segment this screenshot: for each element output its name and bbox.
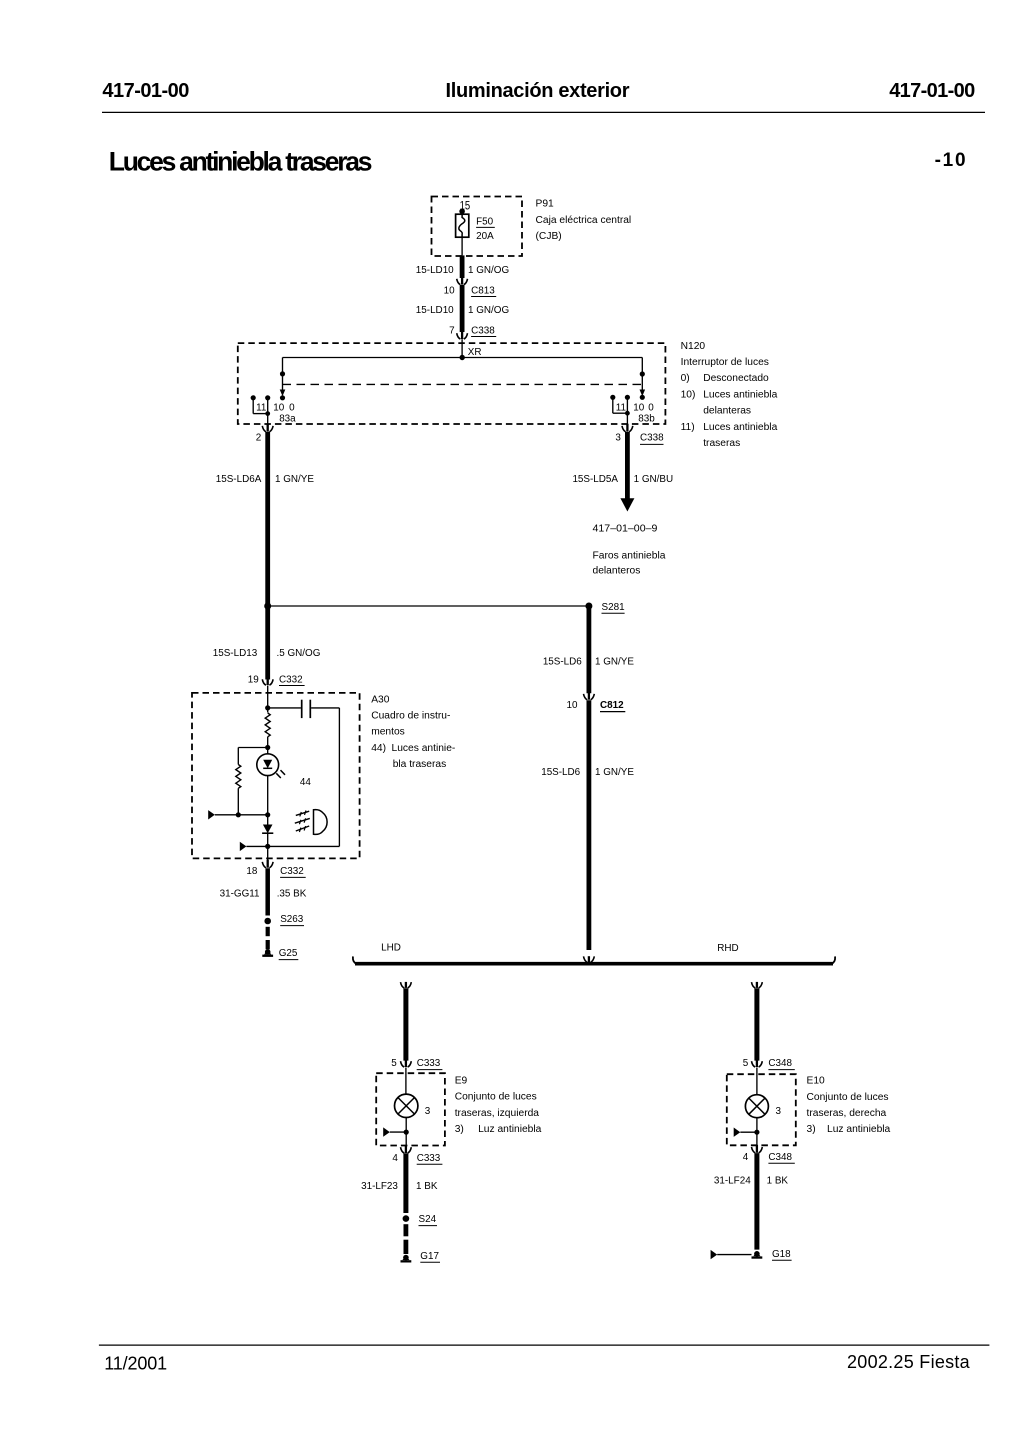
svg-text:1 GN/BU: 1 GN/BU: [634, 474, 674, 485]
svg-text:5: 5: [743, 1058, 749, 1069]
svg-text:delanteros: delanteros: [593, 565, 641, 576]
svg-text:Luces antiniebla traseras: Luces antiniebla traseras: [109, 147, 373, 177]
svg-text:0): 0): [681, 373, 690, 384]
svg-text:traseras: traseras: [703, 438, 740, 449]
svg-text:44: 44: [300, 777, 311, 788]
svg-text:C338: C338: [640, 433, 664, 444]
svg-text:10: 10: [273, 402, 284, 413]
svg-text:XR: XR: [468, 347, 482, 358]
svg-text:E9: E9: [455, 1076, 468, 1087]
svg-text:Interruptor de luces: Interruptor de luces: [681, 357, 769, 368]
svg-text:2002.25 Fiesta: 2002.25 Fiesta: [847, 1352, 971, 1372]
svg-text:11/2001: 11/2001: [104, 1353, 167, 1373]
svg-text:C348: C348: [768, 1058, 792, 1069]
svg-text:15: 15: [460, 201, 471, 213]
svg-text:N120: N120: [681, 341, 706, 352]
svg-text:Conjunto de luces: Conjunto de luces: [455, 1092, 537, 1103]
svg-text:417–01–00–9: 417–01–00–9: [593, 523, 658, 534]
svg-text:1 GN/OG: 1 GN/OG: [468, 305, 509, 316]
svg-text:C813: C813: [471, 285, 495, 296]
svg-text:19: 19: [248, 674, 259, 685]
svg-text:1 GN/OG: 1 GN/OG: [468, 265, 509, 276]
svg-text:10: 10: [444, 285, 455, 296]
svg-text:15S-LD5A: 15S-LD5A: [572, 474, 618, 485]
svg-text:3: 3: [425, 1106, 431, 1117]
svg-text:A30: A30: [371, 694, 390, 705]
svg-text:4: 4: [392, 1153, 398, 1164]
svg-text:G18: G18: [772, 1249, 791, 1260]
svg-text:.35 BK: .35 BK: [277, 889, 307, 900]
svg-text:10): 10): [681, 389, 696, 400]
svg-text:Luces antiniebla: Luces antiniebla: [703, 422, 777, 433]
svg-text:bla traseras: bla traseras: [393, 759, 447, 770]
svg-text:Caja eléctrica central: Caja eléctrica central: [536, 215, 632, 226]
svg-text:C348: C348: [768, 1152, 792, 1163]
svg-text:1 BK: 1 BK: [416, 1181, 438, 1192]
svg-text:C333: C333: [417, 1058, 441, 1069]
svg-text:15-LD10: 15-LD10: [416, 265, 454, 276]
svg-text:S263: S263: [280, 914, 304, 925]
svg-text:S24: S24: [419, 1214, 437, 1225]
svg-text:3): 3): [807, 1124, 816, 1135]
svg-text:83a: 83a: [279, 413, 296, 424]
svg-text:3: 3: [776, 1106, 782, 1117]
svg-text:-10: -10: [935, 150, 966, 171]
svg-text:RHD: RHD: [717, 943, 738, 954]
svg-text:4: 4: [743, 1152, 749, 1163]
svg-text:G17: G17: [420, 1251, 439, 1262]
svg-text:traseras, derecha: traseras, derecha: [807, 1108, 887, 1119]
svg-text:10: 10: [633, 402, 644, 413]
svg-text:.5 GN/OG: .5 GN/OG: [277, 648, 321, 659]
svg-text:Conjunto de luces: Conjunto de luces: [807, 1092, 889, 1103]
svg-text:15S-LD6: 15S-LD6: [541, 767, 580, 778]
svg-text:3): 3): [455, 1124, 464, 1135]
svg-text:C333: C333: [417, 1153, 441, 1164]
svg-text:0: 0: [648, 402, 654, 413]
svg-text:Luz antiniebla: Luz antiniebla: [478, 1124, 542, 1135]
svg-text:F50: F50: [476, 216, 494, 227]
svg-text:Faros antiniebla: Faros antiniebla: [593, 550, 666, 561]
svg-text:31-GG11: 31-GG11: [220, 889, 260, 900]
svg-text:(CJB): (CJB): [536, 231, 562, 242]
svg-text:11: 11: [256, 402, 267, 413]
svg-text:20A: 20A: [476, 231, 494, 242]
svg-text:15S-LD6A: 15S-LD6A: [216, 474, 262, 485]
svg-text:10: 10: [567, 700, 578, 711]
svg-text:7: 7: [449, 325, 455, 336]
svg-text:1 BK: 1 BK: [767, 1176, 789, 1187]
svg-text:C332: C332: [279, 674, 303, 685]
svg-text:G25: G25: [279, 948, 298, 959]
svg-text:C812: C812: [600, 700, 624, 711]
svg-text:18: 18: [246, 866, 257, 877]
svg-text:5: 5: [391, 1058, 397, 1069]
svg-text:417-01-00: 417-01-00: [889, 80, 975, 102]
svg-text:31-LF24: 31-LF24: [714, 1176, 751, 1187]
svg-text:Luz antiniebla: Luz antiniebla: [827, 1124, 891, 1135]
svg-text:1 GN/YE: 1 GN/YE: [275, 474, 314, 485]
svg-text:44): 44): [371, 743, 386, 754]
svg-text:11): 11): [681, 422, 695, 433]
svg-text:1 GN/YE: 1 GN/YE: [595, 767, 634, 778]
svg-text:Cuadro de instru-: Cuadro de instru-: [371, 711, 450, 722]
svg-text:delanteras: delanteras: [703, 406, 751, 417]
svg-text:C332: C332: [280, 866, 304, 877]
svg-text:E10: E10: [807, 1076, 826, 1087]
svg-text:15S-LD13: 15S-LD13: [213, 648, 258, 659]
svg-text:P91: P91: [536, 199, 555, 210]
svg-text:traseras, izquierda: traseras, izquierda: [455, 1108, 540, 1119]
svg-text:15S-LD6: 15S-LD6: [543, 657, 582, 668]
svg-text:Iluminación exterior: Iluminación exterior: [446, 80, 630, 102]
svg-text:2: 2: [256, 432, 262, 443]
svg-text:Luces antinie-: Luces antinie-: [392, 743, 456, 754]
svg-text:3: 3: [615, 432, 621, 443]
svg-text:417-01-00: 417-01-00: [102, 80, 189, 102]
svg-text:Desconectado: Desconectado: [703, 373, 769, 384]
svg-text:11: 11: [616, 402, 627, 413]
svg-text:15-LD10: 15-LD10: [416, 305, 454, 316]
svg-text:83b: 83b: [638, 413, 655, 424]
svg-text:31-LF23: 31-LF23: [361, 1181, 398, 1192]
svg-text:0: 0: [289, 402, 295, 413]
svg-text:mentos: mentos: [371, 727, 405, 738]
svg-text:C338: C338: [471, 325, 495, 336]
svg-text:S281: S281: [602, 602, 626, 613]
svg-text:1 GN/YE: 1 GN/YE: [595, 657, 634, 668]
svg-text:Luces antiniebla: Luces antiniebla: [703, 389, 777, 400]
svg-text:LHD: LHD: [381, 942, 401, 953]
